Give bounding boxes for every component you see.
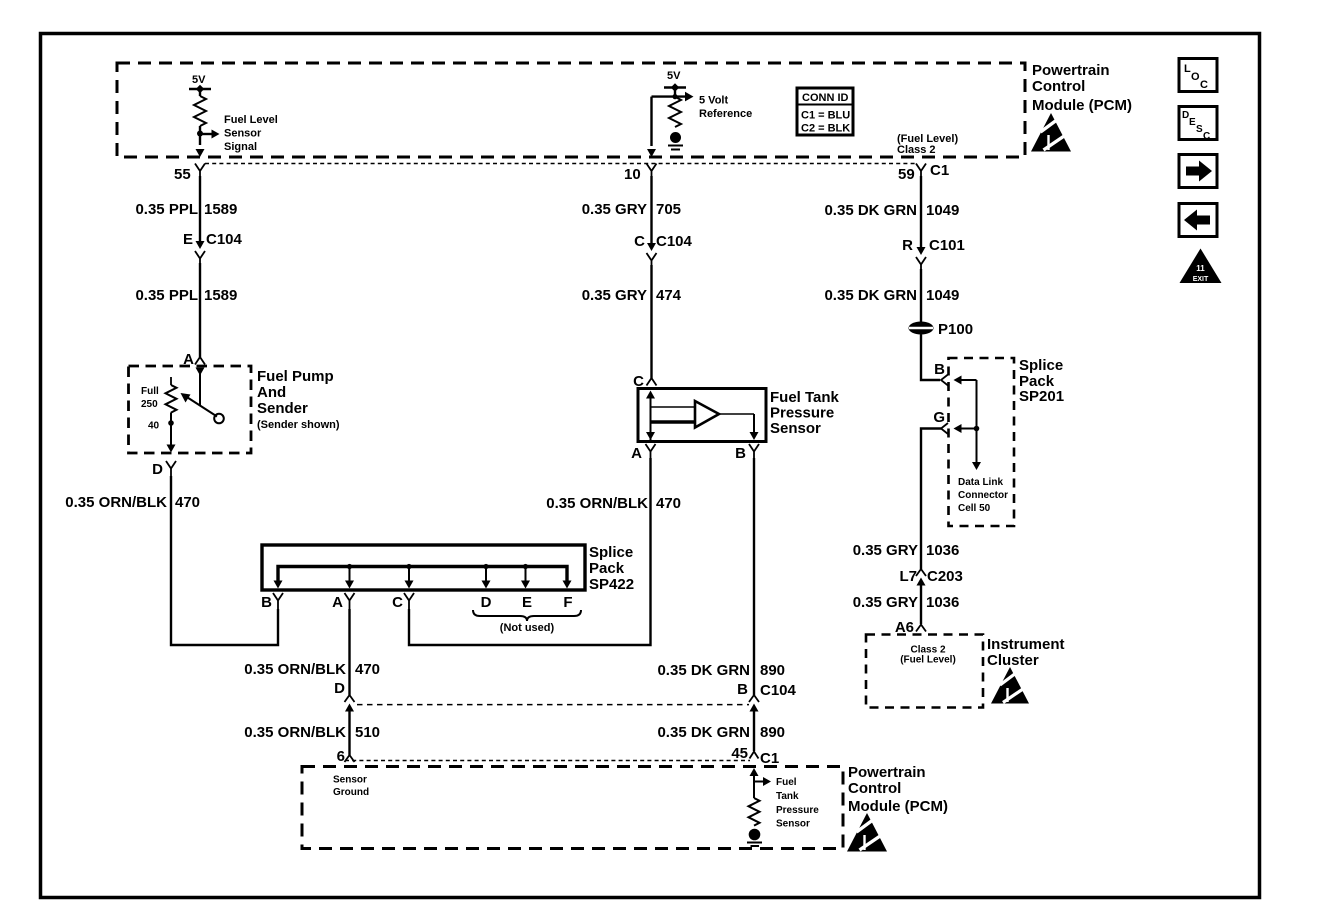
node 5V supply (fuel level)	[189, 74, 211, 96]
wire 0.35 ORN/BLK 510	[348, 710, 350, 755]
svg-text:0.35 PPL: 0.35 PPL	[135, 201, 198, 218]
wire pin 45 entry (in PCM)	[750, 768, 772, 798]
svg-text:C104: C104	[656, 233, 693, 250]
svg-text:Splice: Splice	[589, 544, 633, 561]
connector B C104	[737, 681, 796, 712]
connector D C104	[334, 680, 354, 712]
svg-text:F: F	[563, 594, 572, 611]
svg-text:1049: 1049	[926, 287, 959, 304]
svg-text:6: 6	[337, 748, 345, 765]
svg-text:Powertrain: Powertrain	[1032, 62, 1110, 79]
svg-text:0.35 ORN/BLK: 0.35 ORN/BLK	[244, 661, 346, 678]
splice wire to B	[954, 376, 980, 463]
pin G (SP201)	[933, 409, 948, 434]
pin 10	[624, 164, 657, 184]
pin E (SP422, not used)	[522, 594, 532, 611]
label 0.35 ORN/BLK 470 (FTPS A)	[546, 495, 681, 512]
net Sensor Ground	[333, 775, 369, 799]
button next (right arrow)	[1179, 155, 1217, 188]
svg-text:R: R	[902, 237, 913, 254]
wire 0.35 GRY 1036 (upper)	[921, 429, 941, 570]
wire sender to pin D	[167, 413, 176, 453]
svg-text:C203: C203	[927, 568, 963, 585]
label 5 Volt Reference	[699, 95, 752, 121]
op-amp U1 (pressure sensor amp)	[651, 401, 755, 433]
brace (not used pins)	[473, 610, 581, 634]
svg-text:L7: L7	[899, 568, 917, 585]
wire 0.35 GRY 474	[650, 265, 652, 378]
resistor (5V ref, in PCM)	[669, 97, 681, 127]
connector C C104	[634, 233, 692, 265]
fuel pump and sender box	[129, 366, 252, 453]
svg-text:P100: P100	[938, 321, 973, 338]
pin A (fuel pump)	[183, 351, 205, 368]
svg-text:Instrument: Instrument	[987, 636, 1065, 653]
svg-text:510: 510	[355, 724, 380, 741]
PCM connector interface line (pins 6,45)	[345, 760, 750, 762]
splice pack SP422 box	[262, 545, 585, 590]
svg-text:C104: C104	[206, 231, 243, 248]
svg-text:Pressure: Pressure	[770, 405, 834, 422]
connector R C101	[902, 237, 965, 269]
pin B (FTPS)	[735, 444, 759, 462]
svg-text:470: 470	[656, 495, 681, 512]
pin A/B exit arrows (inside sensor box)	[646, 432, 759, 440]
wire pin 10 exit arrow	[647, 149, 656, 157]
pin A (FTPS)	[631, 444, 655, 462]
svg-text:Pressure: Pressure	[776, 805, 819, 816]
svg-text:Pack: Pack	[589, 560, 625, 577]
pin D (SP422, not used)	[481, 594, 492, 611]
svg-text:D: D	[481, 594, 492, 611]
wire 0.35 ORN/BLK 470 (left)	[171, 476, 278, 645]
label 0.35 DK GRN 1049 (upper)	[824, 202, 959, 219]
label 0.35 DK GRN 890 (lower)	[657, 724, 785, 741]
svg-text:Fuel Tank: Fuel Tank	[770, 389, 840, 406]
label 0.35 GRY 1036 (upper)	[853, 542, 960, 559]
label 0.35 GRY 474	[582, 287, 682, 304]
wire 0.35 DK GRN 890 (lower)	[753, 710, 755, 751]
svg-text:C1: C1	[930, 162, 949, 179]
svg-text:Powertrain: Powertrain	[848, 764, 926, 781]
svg-text:B: B	[934, 361, 945, 378]
connector E C104	[183, 231, 243, 263]
svg-text:CONN ID: CONN ID	[802, 92, 849, 104]
svg-text:10: 10	[624, 166, 641, 183]
PCM module box (bottom)	[302, 767, 843, 849]
wire + junction (fuel level signal node)	[197, 126, 220, 145]
wire 0.35 PPL 1589 (lower)	[199, 263, 201, 357]
svg-text:B: B	[261, 594, 272, 611]
svg-text:C2 = BLK: C2 = BLK	[801, 123, 850, 135]
svg-text:Sensor: Sensor	[776, 819, 810, 830]
C104 connector line	[357, 704, 749, 706]
svg-text:5 Volt: 5 Volt	[699, 95, 728, 107]
svg-text:A: A	[332, 594, 343, 611]
svg-text:Fuel: Fuel	[776, 777, 797, 788]
label Powertrain Control Module (PCM) top	[1032, 62, 1132, 114]
svg-text:705: 705	[656, 201, 681, 218]
svg-text:Module (PCM): Module (PCM)	[1032, 97, 1132, 114]
svg-text:SP201: SP201	[1019, 388, 1064, 405]
svg-text:890: 890	[760, 662, 785, 679]
svg-text:Class 2: Class 2	[897, 144, 936, 156]
ESD symbol (instrument cluster)	[991, 667, 1029, 704]
label Powertrain Control Module (PCM) bottom	[848, 764, 948, 815]
sender resistor Full 250 / 40	[141, 377, 177, 432]
svg-text:C1 = BLU: C1 = BLU	[801, 110, 850, 122]
net Fuel Tank Pressure Sensor (in PCM)	[776, 777, 819, 830]
svg-text:Fuel Level: Fuel Level	[224, 114, 278, 126]
label 0.35 ORN/BLK 510	[244, 724, 380, 741]
svg-text:Tank: Tank	[776, 791, 799, 802]
svg-text:C1: C1	[760, 750, 779, 767]
svg-text:C: C	[1203, 131, 1210, 142]
pin D	[152, 461, 176, 478]
svg-text:0.35 GRY: 0.35 GRY	[853, 594, 918, 611]
svg-text:S: S	[1196, 124, 1203, 135]
wire 0.35 DK GRN 1049 (lower)	[920, 269, 922, 322]
wire pin C entry arrow	[646, 391, 655, 441]
svg-text:Sender: Sender	[257, 400, 308, 417]
svg-text:59: 59	[898, 166, 915, 183]
svg-text:Data Link: Data Link	[958, 477, 1003, 488]
svg-text:Sensor: Sensor	[770, 420, 821, 437]
svg-text:EXIT: EXIT	[1193, 276, 1209, 283]
svg-text:C: C	[392, 594, 403, 611]
pin C (SP422)	[392, 593, 414, 611]
sender wiper	[181, 393, 224, 423]
svg-text:Sensor: Sensor	[333, 775, 367, 786]
wire 5 volt reference branch	[652, 92, 694, 146]
svg-text:(Fuel Level): (Fuel Level)	[900, 655, 956, 666]
arrow to data link connector	[972, 462, 981, 470]
label Splice Pack SP422	[589, 544, 634, 593]
label Fuel Tank Pressure Sensor	[770, 389, 840, 437]
PCM connector interface line (pins 55,10,59)	[205, 163, 916, 165]
svg-text:0.35 ORN/BLK: 0.35 ORN/BLK	[546, 495, 648, 512]
wire 0.35 PPL 1589 (upper)	[199, 176, 201, 241]
svg-text:1049: 1049	[926, 202, 959, 219]
svg-text:Fuel Pump: Fuel Pump	[257, 368, 334, 385]
svg-text:D: D	[152, 461, 163, 478]
label 0.35 DK GRN 1049 (lower)	[824, 287, 959, 304]
svg-text:(Sender shown): (Sender shown)	[257, 419, 340, 431]
svg-text:Cell 50: Cell 50	[958, 503, 991, 514]
net (Fuel Level) Class 2	[897, 133, 958, 156]
svg-text:1036: 1036	[926, 542, 959, 559]
label Instrument Cluster	[987, 636, 1065, 669]
svg-text:11: 11	[1196, 264, 1205, 273]
svg-text:0.35 DK GRN: 0.35 DK GRN	[824, 202, 917, 219]
wire pin A entry arrow	[196, 368, 205, 407]
svg-text:D: D	[334, 680, 345, 697]
wire 0.35 ORN/BLK 470 (SP422 A down)	[348, 609, 350, 695]
svg-text:Connector: Connector	[958, 490, 1008, 501]
label 0.35 ORN/BLK 470 (left)	[65, 494, 200, 511]
pin 45 C1	[731, 745, 779, 767]
button DESC	[1179, 107, 1217, 143]
grommet P100	[909, 321, 974, 338]
svg-text:Cluster: Cluster	[987, 652, 1039, 669]
svg-text:Signal: Signal	[224, 141, 257, 153]
pin C (fuel tank pressure sensor)	[633, 373, 656, 390]
PCM module box (top)	[117, 63, 1025, 157]
resistor (fuel level pull-up, in PCM)	[194, 96, 206, 126]
node 5V supply (5 volt reference)	[664, 70, 686, 97]
svg-text:55: 55	[174, 166, 191, 183]
CONN ID table	[797, 88, 853, 135]
wire 0.35 GRY 705	[650, 176, 652, 243]
net Data Link Connector Cell 50	[958, 477, 1008, 514]
label Fuel Pump And Sender	[257, 368, 340, 431]
svg-text:SP422: SP422	[589, 576, 634, 593]
svg-text:(Not used): (Not used)	[500, 622, 555, 634]
pin 55	[174, 164, 205, 184]
svg-text:0.35 GRY: 0.35 GRY	[582, 287, 647, 304]
svg-text:Ground: Ground	[333, 787, 369, 798]
svg-text:E: E	[1189, 117, 1196, 128]
svg-text:1589: 1589	[204, 201, 237, 218]
svg-text:C: C	[1200, 79, 1208, 91]
instrument cluster box	[866, 635, 983, 708]
svg-text:0.35 GRY: 0.35 GRY	[582, 201, 647, 218]
splice bus bar	[278, 564, 567, 581]
svg-text:O: O	[1191, 71, 1200, 83]
svg-text:0.35 ORN/BLK: 0.35 ORN/BLK	[65, 494, 167, 511]
svg-text:Full: Full	[141, 386, 159, 397]
svg-text:Splice: Splice	[1019, 357, 1063, 374]
net Class 2 (Fuel Level)	[900, 645, 956, 666]
pin A6 (instrument cluster)	[895, 619, 926, 636]
svg-text:Control: Control	[1032, 78, 1085, 95]
splice wire to G	[954, 424, 977, 433]
svg-text:1589: 1589	[204, 287, 237, 304]
wire pin 55 exit arrow	[196, 149, 205, 157]
label 0.35 DK GRN 890 (upper)	[657, 662, 785, 679]
label 0.35 ORN/BLK 470 (SP422 A)	[244, 661, 380, 678]
connector L7 C203	[899, 568, 962, 586]
svg-text:E: E	[183, 231, 193, 248]
label Fuel Level Sensor Signal	[224, 114, 278, 153]
svg-text:0.35 ORN/BLK: 0.35 ORN/BLK	[244, 724, 346, 741]
svg-text:0.35 DK GRN: 0.35 DK GRN	[657, 724, 750, 741]
resistor (FTPS pull, in PCM)	[749, 798, 760, 826]
svg-text:1036: 1036	[926, 594, 959, 611]
svg-text:C104: C104	[760, 682, 797, 699]
svg-text:0.35 DK GRN: 0.35 DK GRN	[657, 662, 750, 679]
svg-text:B: B	[737, 681, 748, 698]
pin 6 (PCM sensor ground)	[337, 748, 355, 765]
pin B (SP201)	[934, 361, 948, 386]
label Splice Pack SP201	[1019, 357, 1064, 405]
wire 0.35 ORN/BLK 470 (FTPS A to splice)	[409, 458, 651, 645]
svg-text:5V: 5V	[192, 74, 206, 86]
pin 59 C1	[898, 162, 949, 183]
pin F (SP422, not used)	[563, 594, 572, 611]
pin B (SP422)	[261, 593, 283, 611]
svg-text:A: A	[631, 445, 642, 462]
wire 0.35 DK GRN 1049 (upper)	[920, 176, 922, 247]
svg-text:250: 250	[141, 399, 158, 410]
svg-text:0.35 GRY: 0.35 GRY	[853, 542, 918, 559]
svg-text:40: 40	[148, 421, 160, 432]
button exit (triangle)	[1180, 249, 1222, 284]
svg-text:C: C	[634, 233, 645, 250]
label 0.35 GRY 705	[582, 201, 681, 218]
svg-text:C101: C101	[929, 237, 965, 254]
label 0.35 PPL 1589 (lower)	[135, 287, 237, 304]
svg-text:B: B	[735, 445, 746, 462]
splice pack SP201 box	[949, 358, 1015, 526]
svg-text:890: 890	[760, 724, 785, 741]
svg-text:470: 470	[355, 661, 380, 678]
svg-text:Control: Control	[848, 780, 901, 797]
button previous (left arrow)	[1179, 204, 1217, 237]
label 0.35 GRY 1036 (lower)	[853, 594, 960, 611]
svg-text:Module (PCM): Module (PCM)	[848, 798, 948, 815]
ESD symbol (PCM top)	[1031, 113, 1071, 152]
svg-text:474: 474	[656, 287, 682, 304]
svg-text:L: L	[1184, 63, 1191, 75]
label 0.35 PPL 1589	[135, 201, 237, 218]
svg-text:E: E	[522, 594, 532, 611]
bus arrows to pins	[274, 581, 572, 589]
ground (PCM internal, lamp-dot)	[747, 829, 762, 846]
svg-text:470: 470	[175, 494, 200, 511]
ESD symbol (PCM bottom)	[847, 813, 887, 852]
svg-text:5V: 5V	[667, 70, 681, 82]
wire 0.35 DK GRN 890 (upper)	[753, 458, 755, 695]
wire P100 to SP201 pin B	[921, 335, 940, 381]
svg-text:0.35 DK GRN: 0.35 DK GRN	[824, 287, 917, 304]
svg-text:G: G	[933, 409, 945, 426]
svg-text:0.35 PPL: 0.35 PPL	[135, 287, 198, 304]
button LOC	[1179, 59, 1217, 92]
svg-text:Sensor: Sensor	[224, 128, 262, 140]
svg-text:45: 45	[731, 745, 748, 762]
svg-text:And: And	[257, 384, 286, 401]
ground (PCM internal, lamp-dot)	[668, 132, 683, 150]
wire 0.35 GRY 1036 (lower)	[920, 584, 922, 624]
fuel tank pressure sensor box	[638, 389, 766, 442]
svg-text:Reference: Reference	[699, 108, 752, 120]
pin A (SP422)	[332, 593, 354, 611]
